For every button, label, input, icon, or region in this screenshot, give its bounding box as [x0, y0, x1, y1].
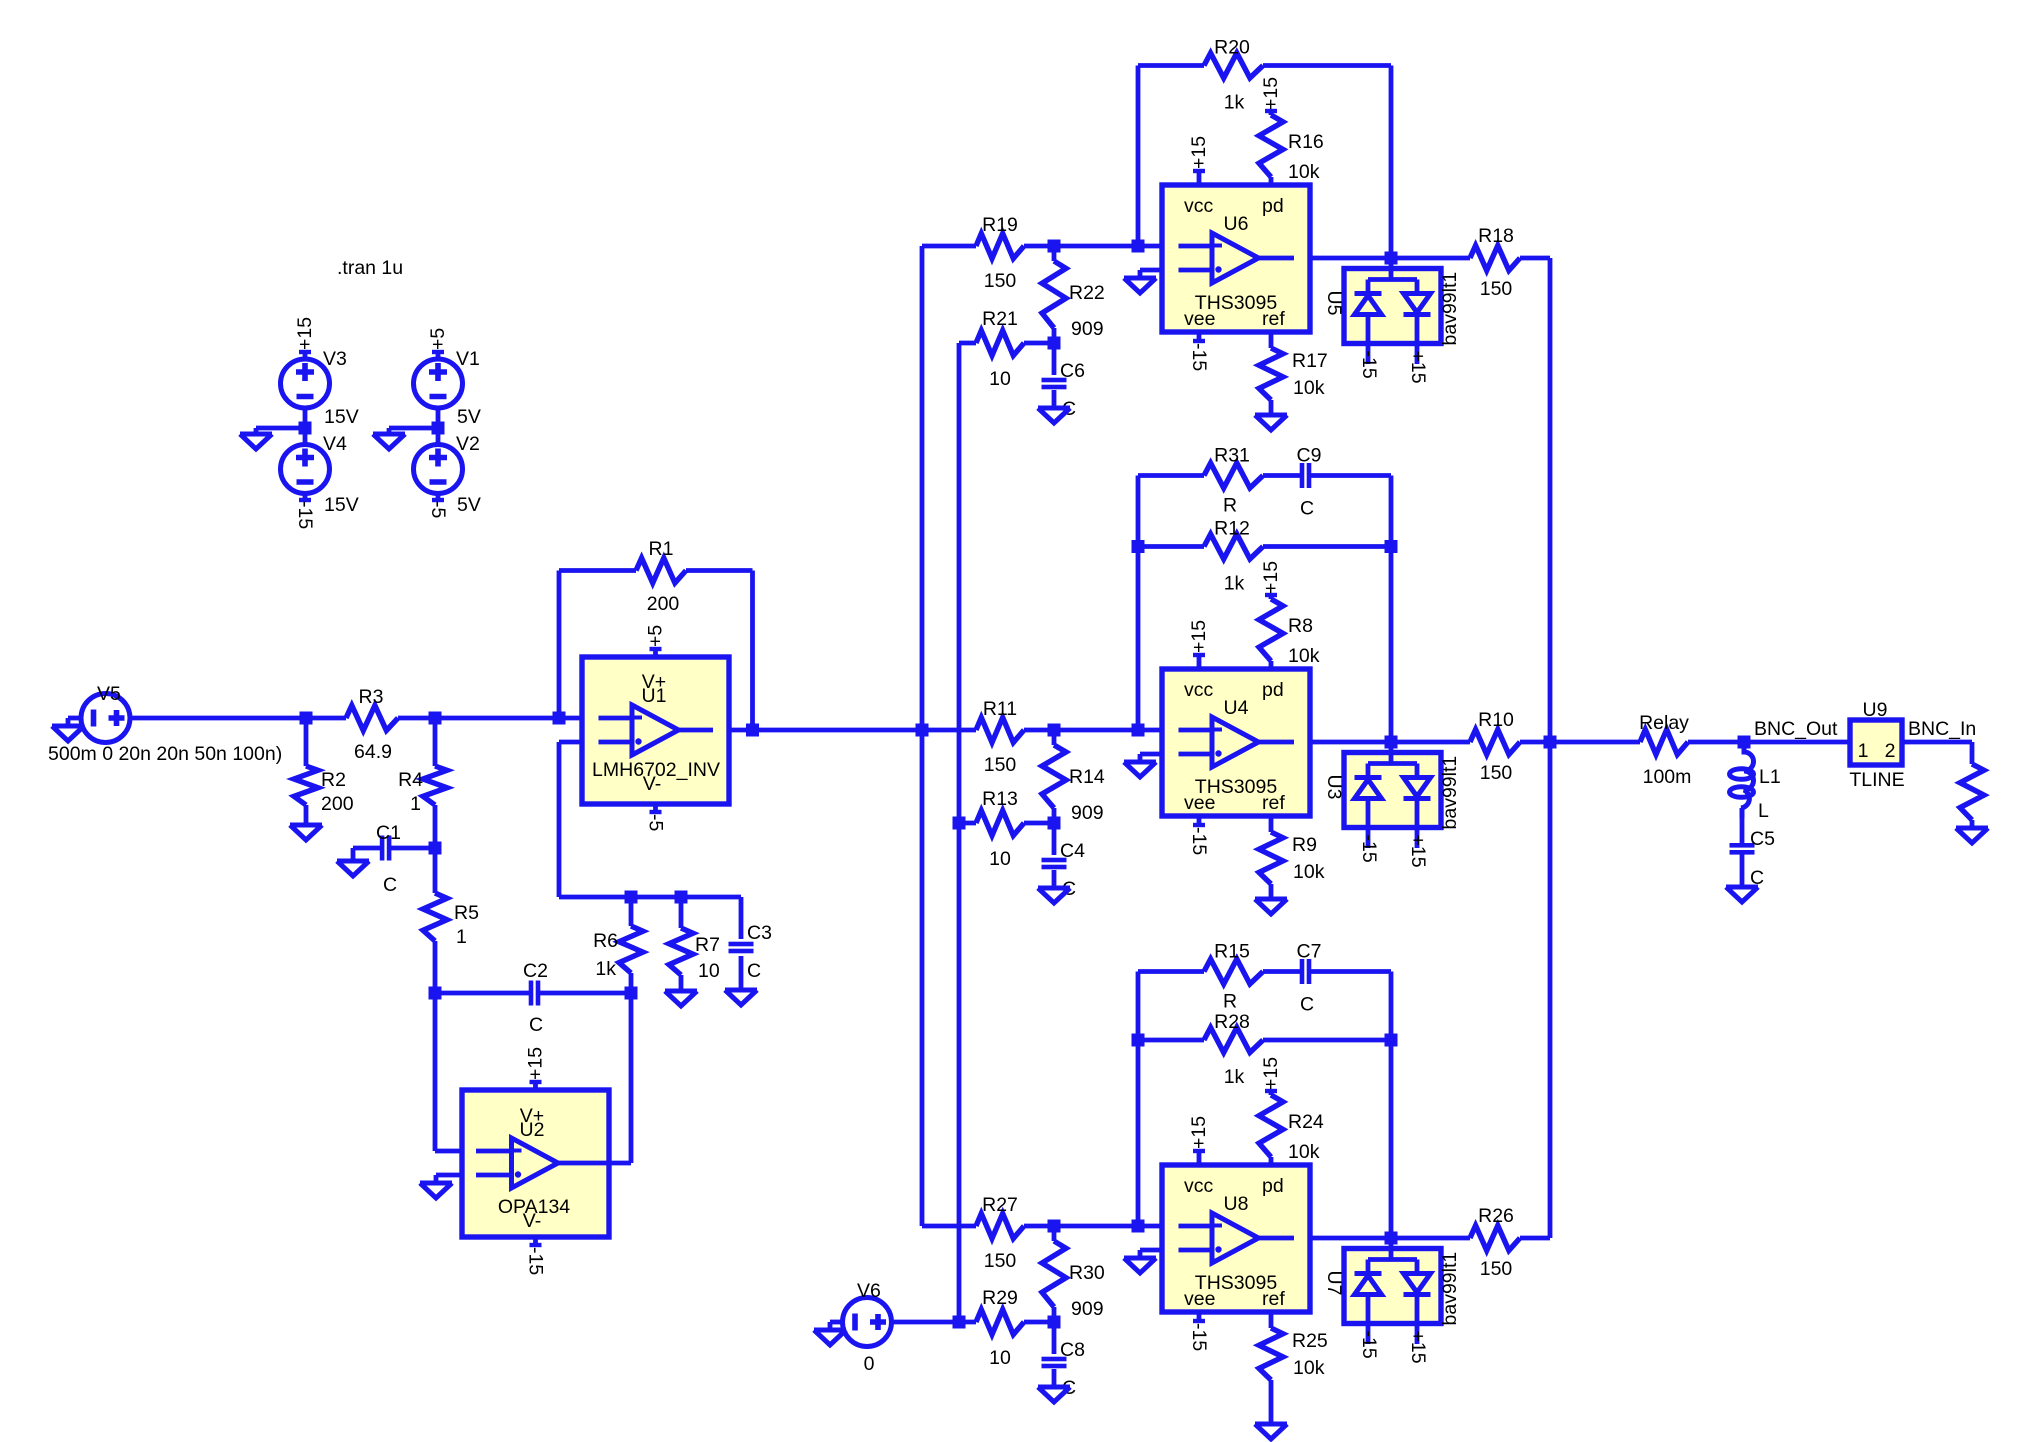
wire — [1520, 1236, 1550, 1241]
svg-text:R31: R31 — [1214, 445, 1250, 467]
capacitor C5 — [1730, 843, 1755, 848]
wire — [1024, 821, 1054, 826]
svg-text:U3: U3 — [1323, 775, 1345, 800]
svg-text:C: C — [529, 1014, 543, 1036]
supply flag -15 (vee) — [1197, 1312, 1202, 1321]
wire — [1052, 343, 1057, 375]
wire — [1389, 476, 1394, 547]
wire — [629, 993, 634, 1163]
svg-text:10k: 10k — [1288, 1141, 1320, 1163]
resistor R17 — [1259, 348, 1283, 400]
svg-text:1: 1 — [456, 926, 467, 948]
svg-text:pd: pd — [1262, 195, 1284, 217]
supply flag +5 — [436, 352, 441, 359]
svg-text:R2: R2 — [321, 769, 346, 791]
wire — [559, 895, 631, 900]
svg-text:150: 150 — [1480, 762, 1513, 784]
junction — [429, 987, 442, 1000]
svg-text:-15: -15 — [525, 1247, 547, 1275]
svg-text:5V: 5V — [457, 494, 481, 516]
svg-text:vee: vee — [1184, 792, 1215, 814]
wire — [1389, 66, 1394, 259]
svg-text:R: R — [1223, 991, 1237, 1013]
wire — [436, 1173, 462, 1178]
svg-text:U8: U8 — [1224, 1193, 1249, 1215]
svg-text:200: 200 — [647, 593, 680, 615]
voltage source V4 — [281, 445, 330, 494]
wire — [306, 716, 346, 721]
wire — [1138, 63, 1204, 68]
svg-text:-5: -5 — [645, 814, 667, 831]
svg-text:R3: R3 — [359, 686, 384, 708]
junction — [1132, 1034, 1145, 1047]
wire — [729, 728, 753, 733]
wire — [559, 716, 582, 721]
svg-text:1: 1 — [410, 793, 421, 815]
svg-text:R26: R26 — [1478, 1205, 1514, 1227]
wire — [959, 1320, 976, 1325]
ground — [420, 1183, 452, 1198]
voltage source V2 — [414, 445, 463, 494]
wire — [1389, 547, 1394, 743]
svg-text:ref: ref — [1262, 792, 1285, 814]
svg-text:L: L — [1758, 800, 1769, 822]
svg-text:5V: 5V — [457, 406, 481, 428]
svg-text:200: 200 — [321, 793, 354, 815]
svg-text:C5: C5 — [1750, 828, 1775, 850]
svg-text:+15: +15 — [294, 317, 316, 350]
svg-text:BNC_Out: BNC_Out — [1754, 718, 1838, 740]
ground — [337, 861, 369, 876]
wire — [681, 895, 741, 900]
svg-text:R22: R22 — [1069, 282, 1105, 304]
wire — [1391, 1236, 1470, 1241]
resistor R2 — [294, 766, 318, 805]
wire — [1311, 969, 1391, 974]
wire — [891, 1320, 959, 1325]
wire — [68, 716, 81, 721]
resistor R29 — [976, 1310, 1024, 1335]
wire — [922, 728, 976, 733]
supply flag +15 — [303, 352, 308, 359]
wire — [1269, 1380, 1274, 1424]
wire — [557, 742, 562, 897]
svg-text:U1: U1 — [642, 685, 667, 707]
wire — [1138, 1038, 1204, 1043]
wire — [1269, 332, 1274, 348]
ground — [240, 434, 272, 449]
wire — [1052, 1226, 1057, 1241]
junction — [916, 724, 929, 737]
svg-text:15V: 15V — [324, 494, 359, 516]
wire — [1263, 1038, 1391, 1043]
svg-text:10k: 10k — [1293, 861, 1325, 883]
resistor R24 — [1259, 1095, 1283, 1157]
junction — [953, 1316, 966, 1329]
resistor R15 — [1204, 959, 1263, 984]
svg-text:R10: R10 — [1478, 709, 1514, 731]
svg-text:+15: +15 — [1407, 835, 1429, 868]
wire — [1269, 661, 1274, 669]
wire — [1269, 816, 1274, 832]
resistor R16 — [1259, 115, 1283, 177]
svg-text:-15: -15 — [1358, 1331, 1380, 1359]
svg-text:bav99lt1: bav99lt1 — [1439, 756, 1461, 830]
svg-text:150: 150 — [984, 270, 1017, 292]
svg-text:+15: +15 — [1188, 136, 1210, 169]
wire — [1389, 972, 1394, 1041]
junction — [1048, 817, 1061, 830]
junction — [1048, 337, 1061, 350]
voltage source V6 — [843, 1298, 892, 1347]
ground — [1255, 415, 1287, 430]
resistor R26 — [1470, 1226, 1520, 1251]
supply flag +15 (vcc) — [1197, 1151, 1202, 1165]
svg-text:C: C — [747, 960, 761, 982]
wire — [753, 728, 923, 733]
wire — [1520, 256, 1550, 261]
svg-text:R8: R8 — [1288, 615, 1313, 637]
junction — [1385, 736, 1398, 749]
wire — [1310, 740, 1391, 745]
svg-text:+15: +15 — [1188, 1116, 1210, 1149]
svg-text:L1: L1 — [1759, 766, 1781, 788]
voltage source V3 — [281, 359, 330, 408]
supply flag +15 (pd) — [1269, 111, 1274, 115]
junction — [1048, 724, 1061, 737]
junction — [553, 712, 566, 725]
resistor R6 — [619, 926, 643, 973]
svg-text:10: 10 — [989, 368, 1011, 390]
wire — [631, 895, 681, 900]
svg-text:-15: -15 — [1188, 1323, 1210, 1351]
junction — [746, 724, 759, 737]
svg-text:R30: R30 — [1069, 1262, 1105, 1284]
wire — [1391, 256, 1470, 261]
svg-text:1: 1 — [1858, 740, 1869, 762]
resistor R14 — [1042, 745, 1066, 808]
supply flag +5 (U1 V+) — [653, 649, 658, 657]
wire — [433, 941, 438, 993]
ground — [665, 991, 697, 1006]
svg-text:R6: R6 — [593, 930, 618, 952]
wire — [1052, 808, 1057, 823]
svg-text:909: 909 — [1071, 1298, 1104, 1320]
supply flag -15 (vee) — [1197, 816, 1202, 825]
resistor R27 — [976, 1214, 1024, 1239]
resistor R1 — [636, 558, 686, 583]
svg-text:10k: 10k — [1288, 645, 1320, 667]
svg-text:10k: 10k — [1288, 161, 1320, 183]
wire — [1263, 544, 1391, 549]
wire — [254, 428, 259, 434]
svg-text:R13: R13 — [982, 788, 1018, 810]
resistor R22 — [1042, 261, 1066, 328]
op-amp U8 THS3095 — [1162, 1165, 1310, 1312]
supply flag -15 — [303, 494, 308, 501]
voltage source V1 — [414, 359, 463, 408]
svg-text:2: 2 — [1885, 740, 1896, 762]
svg-text:vcc: vcc — [1184, 679, 1214, 701]
wire — [1138, 1250, 1143, 1258]
wire — [1052, 1322, 1057, 1354]
resistor R9 — [1259, 832, 1283, 884]
resistor R20 — [1204, 53, 1263, 78]
svg-text:10k: 10k — [1293, 377, 1325, 399]
wire — [435, 991, 529, 996]
capacitor C3 — [729, 942, 754, 947]
ground — [1038, 408, 1070, 423]
op-amp U6 THS3095 — [1162, 185, 1310, 332]
wire — [436, 428, 441, 445]
wire — [1138, 544, 1204, 549]
wire — [1138, 270, 1143, 278]
svg-text:100m: 100m — [1643, 766, 1692, 788]
op-amp U1 LMH6702_INV — [582, 657, 729, 804]
wire — [920, 246, 925, 730]
svg-text:C6: C6 — [1060, 360, 1085, 382]
wire — [66, 718, 71, 726]
resistor R30 — [1042, 1241, 1066, 1307]
svg-text:R20: R20 — [1214, 37, 1250, 59]
resistor Relay — [1640, 730, 1688, 755]
ground — [1956, 828, 1988, 843]
svg-text:-5: -5 — [427, 501, 449, 518]
op-amp U2 OPA134 — [462, 1090, 609, 1237]
wire — [304, 718, 309, 766]
wire — [686, 568, 753, 573]
ground — [1124, 1258, 1156, 1273]
ground — [1255, 899, 1287, 914]
svg-text:C3: C3 — [747, 922, 772, 944]
wire — [389, 426, 438, 431]
wire — [1052, 1307, 1057, 1322]
junction — [1048, 1220, 1061, 1233]
wire — [1138, 969, 1204, 974]
junction — [1385, 540, 1398, 553]
resistor R11 — [976, 718, 1024, 743]
svg-text:-15: -15 — [1358, 351, 1380, 379]
svg-text:R11: R11 — [983, 698, 1017, 720]
svg-text:R15: R15 — [1214, 941, 1250, 963]
wire — [959, 341, 976, 346]
wire — [1052, 328, 1057, 343]
svg-text:U6: U6 — [1224, 213, 1249, 235]
wire — [435, 716, 559, 721]
svg-text:+15: +15 — [1260, 561, 1282, 594]
wire — [303, 428, 308, 445]
wire — [922, 244, 976, 249]
svg-text:C: C — [383, 874, 397, 896]
resistor R21 — [976, 331, 1024, 356]
svg-text:R28: R28 — [1214, 1011, 1250, 1033]
svg-text:U2: U2 — [520, 1119, 545, 1141]
junction — [1132, 540, 1145, 553]
svg-text:V4: V4 — [323, 433, 347, 455]
svg-text:U7: U7 — [1323, 1271, 1345, 1296]
svg-text:+15: +15 — [1407, 1331, 1429, 1364]
ground — [1038, 888, 1070, 903]
terminating resistor — [1960, 764, 1984, 820]
wire — [739, 956, 744, 990]
svg-text:V2: V2 — [456, 433, 480, 455]
wire — [391, 846, 435, 851]
svg-text:150: 150 — [984, 1250, 1017, 1272]
junction — [299, 422, 312, 435]
junction — [429, 842, 442, 855]
wire — [1140, 752, 1162, 757]
wire — [1902, 740, 1972, 745]
wire — [629, 973, 634, 993]
wire — [433, 993, 438, 1151]
wire — [559, 740, 582, 745]
wire — [1263, 969, 1300, 974]
inductor L1 — [1741, 742, 1754, 818]
resistor R5 — [423, 893, 447, 941]
wire — [1136, 66, 1141, 247]
diode pair U3 bav99lt1 — [1344, 753, 1441, 828]
diode pair U7 bav99lt1 — [1344, 1249, 1441, 1324]
svg-text:V3: V3 — [323, 348, 347, 370]
resistor R8 — [1259, 599, 1283, 661]
capacitor C7 — [1300, 959, 1305, 984]
wire — [1970, 820, 1975, 828]
wire — [1024, 728, 1138, 733]
svg-text:+15: +15 — [525, 1047, 547, 1080]
wire — [679, 897, 684, 928]
wire — [1740, 854, 1745, 887]
svg-text:U5: U5 — [1323, 291, 1345, 316]
wire — [1024, 1320, 1054, 1325]
supply flag +15 (vcc) — [1197, 171, 1202, 185]
wire — [1740, 816, 1745, 844]
supply flag +15 (vcc) — [1197, 655, 1202, 669]
wire — [679, 975, 684, 991]
junction — [1132, 724, 1145, 737]
resistor R31 — [1204, 463, 1263, 488]
svg-text:R12: R12 — [1214, 518, 1250, 540]
wire — [434, 1175, 439, 1183]
svg-text:R29: R29 — [982, 1287, 1018, 1309]
wire — [1136, 972, 1141, 1227]
wire — [435, 1149, 462, 1154]
svg-text:C7: C7 — [1297, 941, 1322, 963]
svg-text:V-: V- — [643, 773, 661, 795]
ground — [290, 825, 322, 840]
wire — [1269, 884, 1274, 899]
svg-text:R7: R7 — [695, 934, 720, 956]
wire — [1310, 256, 1391, 261]
wire — [1052, 823, 1057, 855]
svg-text:10: 10 — [989, 848, 1011, 870]
svg-text:+15: +15 — [1260, 77, 1282, 110]
resistor R3 — [346, 706, 398, 731]
junction — [1385, 1232, 1398, 1245]
svg-text:-15: -15 — [1188, 827, 1210, 855]
resistor R18 — [1470, 246, 1520, 271]
svg-text:909: 909 — [1071, 318, 1104, 340]
wire — [557, 571, 562, 719]
junction — [625, 987, 638, 1000]
ground — [1124, 762, 1156, 777]
svg-text:bav99lt1: bav99lt1 — [1439, 272, 1461, 346]
svg-text:10: 10 — [698, 960, 720, 982]
wire — [1024, 244, 1138, 249]
wire — [1138, 754, 1143, 762]
wire — [1052, 870, 1057, 888]
op-amp U4 THS3095 — [1162, 669, 1310, 816]
junction — [1544, 736, 1557, 749]
wire — [1052, 730, 1057, 745]
svg-text:C9: C9 — [1297, 445, 1322, 467]
ground — [814, 1330, 846, 1345]
wire — [256, 426, 305, 431]
svg-text:R18: R18 — [1478, 225, 1514, 247]
svg-text:+5: +5 — [645, 625, 667, 647]
supply flag -5 (U1 V-) — [653, 804, 658, 812]
svg-text:+15: +15 — [1407, 351, 1429, 384]
wire — [1052, 390, 1057, 408]
svg-text:C8: C8 — [1060, 1339, 1085, 1361]
wire — [1024, 341, 1054, 346]
svg-text:R19: R19 — [982, 214, 1018, 236]
junction — [625, 891, 638, 904]
wire — [1269, 400, 1274, 415]
capacitor C4 — [1042, 858, 1067, 863]
wire — [1970, 742, 1975, 764]
svg-text:R: R — [1223, 495, 1237, 517]
ground — [52, 726, 84, 741]
svg-text:U9: U9 — [1863, 699, 1888, 721]
svg-text:+5: +5 — [427, 328, 449, 350]
svg-text:C2: C2 — [523, 960, 548, 982]
supply flag -15 (U2 V-) — [533, 1237, 538, 1245]
resistor R12 — [1204, 534, 1263, 559]
wire — [1269, 1312, 1274, 1328]
wire — [1269, 177, 1274, 185]
transmission line U9 TLINE — [1850, 720, 1902, 765]
svg-text:150: 150 — [1480, 1258, 1513, 1280]
svg-text:1k: 1k — [1224, 92, 1245, 114]
svg-text:pd: pd — [1262, 1175, 1284, 1197]
ground — [1255, 1424, 1287, 1439]
wire — [1138, 473, 1204, 478]
svg-text:V5: V5 — [97, 683, 121, 705]
wire — [1269, 1157, 1274, 1165]
wire — [1052, 1369, 1057, 1387]
wire — [559, 568, 636, 573]
wire — [1138, 244, 1162, 249]
svg-text:10: 10 — [989, 1347, 1011, 1369]
capacitor C9 — [1300, 463, 1305, 488]
wire — [1263, 63, 1391, 68]
svg-text:+15: +15 — [1188, 620, 1210, 653]
svg-text:1k: 1k — [1224, 1066, 1245, 1088]
wire — [1310, 1236, 1391, 1241]
wire — [1520, 740, 1550, 745]
svg-text:C: C — [1300, 994, 1314, 1016]
wire — [398, 716, 435, 721]
resistor R7 — [669, 928, 693, 975]
wire — [957, 823, 962, 1322]
wire — [1548, 742, 1553, 1238]
wire — [433, 805, 438, 848]
supply flag +15 (pd) — [1269, 595, 1274, 599]
capacitor C1 — [380, 836, 385, 861]
wire — [1138, 1224, 1162, 1229]
wire — [1136, 476, 1141, 731]
wire — [1391, 740, 1470, 745]
